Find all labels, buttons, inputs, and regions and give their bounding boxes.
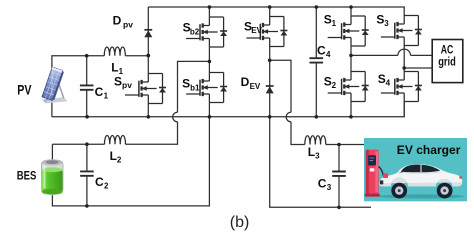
svg-text:C: C [95, 85, 104, 99]
svg-text:pv: pv [123, 19, 133, 29]
svg-text:C: C [317, 44, 326, 58]
svg-text:EV: EV [251, 26, 262, 35]
svg-text:3: 3 [315, 151, 320, 160]
svg-text:C: C [95, 175, 104, 189]
svg-text:b1: b1 [190, 83, 200, 92]
svg-text:1: 1 [104, 91, 109, 100]
svg-text:AC: AC [441, 45, 454, 57]
svg-text:L: L [110, 149, 117, 163]
svg-text:L: L [308, 145, 315, 159]
svg-text:EV: EV [250, 82, 261, 91]
svg-text:PV: PV [17, 82, 32, 98]
svg-text:b2: b2 [190, 27, 200, 36]
svg-text:L: L [111, 61, 118, 75]
svg-text:EV charger: EV charger [397, 145, 461, 157]
svg-text:S: S [182, 77, 190, 91]
svg-text:(b): (b) [230, 214, 250, 231]
svg-text:2: 2 [117, 155, 122, 164]
svg-text:C: C [318, 177, 327, 191]
svg-text:D: D [241, 75, 250, 89]
svg-text:BES: BES [17, 168, 37, 182]
svg-text:3: 3 [384, 19, 389, 28]
svg-text:pv: pv [122, 80, 132, 90]
svg-text:D: D [113, 14, 122, 28]
svg-text:grid: grid [438, 57, 456, 69]
svg-text:3: 3 [327, 183, 332, 192]
svg-text:2: 2 [104, 181, 109, 190]
svg-text:4: 4 [326, 50, 331, 59]
svg-text:S: S [114, 74, 122, 88]
svg-text:2: 2 [332, 81, 337, 90]
svg-text:4: 4 [386, 79, 391, 88]
svg-text:1: 1 [332, 19, 337, 28]
